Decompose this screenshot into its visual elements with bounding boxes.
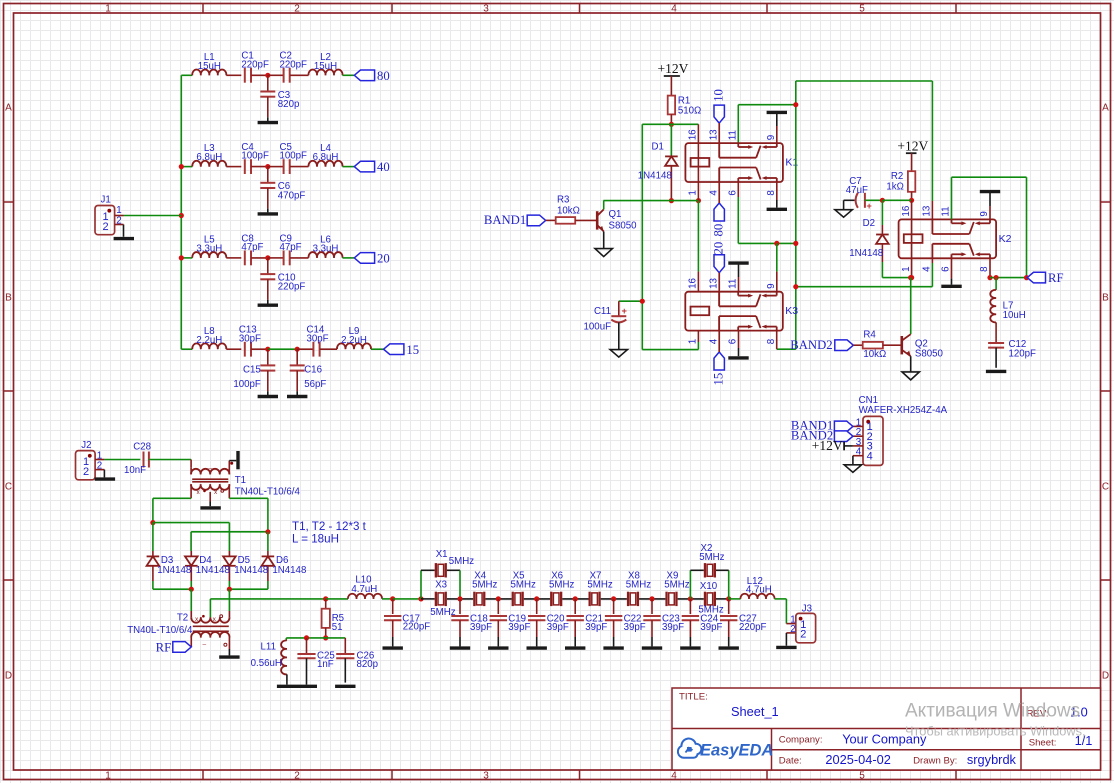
- svg-text:10kΩ: 10kΩ: [557, 205, 580, 216]
- svg-text:470pF: 470pF: [278, 190, 306, 201]
- svg-text:Company:: Company:: [779, 735, 823, 746]
- svg-text:16: 16: [901, 205, 912, 216]
- svg-text:6.8uH: 6.8uH: [313, 152, 339, 163]
- svg-text:5MHz: 5MHz: [549, 580, 574, 591]
- svg-text:11: 11: [727, 279, 738, 289]
- svg-text:T2: T2: [177, 613, 188, 624]
- svg-text:BAND1: BAND1: [484, 213, 526, 227]
- svg-text:TITLE:: TITLE:: [679, 692, 708, 703]
- svg-text:2: 2: [102, 221, 108, 233]
- svg-text:1N4148: 1N4148: [196, 565, 230, 576]
- svg-text:5MHz: 5MHz: [699, 552, 724, 563]
- svg-text:5MHz: 5MHz: [664, 580, 689, 591]
- svg-text:39pF: 39pF: [547, 622, 569, 633]
- svg-text:1: 1: [901, 266, 912, 271]
- svg-text:2.2uH: 2.2uH: [341, 335, 367, 346]
- svg-text:X1: X1: [436, 549, 448, 560]
- svg-text:2: 2: [83, 466, 89, 478]
- svg-text:510Ω: 510Ω: [678, 106, 701, 117]
- svg-text:2: 2: [790, 624, 795, 635]
- svg-text:1: 1: [688, 339, 699, 344]
- svg-text:+: +: [867, 201, 872, 211]
- svg-text:D2: D2: [863, 218, 875, 229]
- svg-text:+12V: +12V: [658, 61, 689, 76]
- svg-text:X10: X10: [700, 581, 718, 592]
- svg-text:56pF: 56pF: [304, 379, 326, 390]
- svg-text:EasyEDA: EasyEDA: [700, 742, 773, 760]
- svg-text:15uH: 15uH: [314, 61, 337, 72]
- svg-text:9: 9: [766, 283, 777, 288]
- svg-text:srgybrdk: srgybrdk: [967, 752, 1017, 767]
- svg-text:47pF: 47pF: [280, 242, 302, 253]
- svg-text:3.3uH: 3.3uH: [196, 244, 222, 255]
- svg-text:1: 1: [105, 771, 111, 782]
- svg-text:S8050: S8050: [915, 348, 944, 359]
- svg-text:100pF: 100pF: [280, 151, 308, 162]
- svg-text:2: 2: [294, 771, 300, 782]
- svg-text:R4: R4: [863, 330, 876, 341]
- svg-text:4.7uH: 4.7uH: [351, 584, 377, 595]
- svg-text:D1: D1: [652, 142, 664, 153]
- svg-text:9: 9: [979, 211, 990, 216]
- svg-text:11: 11: [941, 206, 952, 216]
- svg-text:8: 8: [766, 338, 777, 344]
- svg-text:4: 4: [708, 338, 719, 344]
- svg-text:40: 40: [377, 160, 390, 174]
- svg-text:13: 13: [708, 129, 719, 140]
- svg-text:39pF: 39pF: [585, 622, 607, 633]
- svg-text:5: 5: [859, 4, 865, 15]
- svg-text:4: 4: [867, 450, 873, 462]
- svg-text:220pF: 220pF: [241, 59, 269, 70]
- svg-text:30pF: 30pF: [307, 333, 329, 344]
- svg-text:X3: X3: [435, 580, 447, 591]
- svg-text:8: 8: [979, 266, 990, 272]
- svg-text:1N4148: 1N4148: [234, 565, 268, 576]
- svg-text:J2: J2: [81, 440, 91, 451]
- svg-text:15: 15: [712, 373, 726, 386]
- svg-text:R3: R3: [557, 194, 569, 205]
- svg-text:A: A: [1102, 103, 1109, 114]
- svg-text:39pF: 39pF: [508, 622, 530, 633]
- svg-text:11: 11: [728, 130, 739, 140]
- svg-text:1N4148: 1N4148: [638, 170, 672, 181]
- svg-text:13: 13: [922, 205, 933, 216]
- svg-text:D: D: [5, 671, 12, 682]
- svg-text:2: 2: [294, 4, 300, 15]
- svg-text:5MHz: 5MHz: [511, 580, 536, 591]
- svg-text:4: 4: [708, 190, 719, 196]
- svg-text:2.2uH: 2.2uH: [196, 335, 222, 346]
- svg-text:10nF: 10nF: [124, 465, 146, 476]
- svg-text:5: 5: [859, 771, 865, 782]
- svg-text:16: 16: [688, 129, 699, 140]
- svg-text:20: 20: [377, 252, 390, 266]
- svg-text:Активация Windows: Активация Windows: [905, 701, 1080, 722]
- svg-text:Drawn By:: Drawn By:: [913, 756, 957, 767]
- svg-text:+: +: [622, 306, 627, 316]
- svg-text:B: B: [1102, 293, 1109, 304]
- svg-text:9: 9: [766, 135, 777, 140]
- svg-text:51: 51: [332, 622, 343, 633]
- svg-text:15uH: 15uH: [198, 61, 221, 72]
- svg-text:8: 8: [766, 190, 777, 196]
- svg-text:L = 18uH: L = 18uH: [292, 533, 339, 546]
- svg-text:Sheet_1: Sheet_1: [731, 704, 779, 719]
- svg-text:C: C: [5, 482, 12, 493]
- svg-text:1: 1: [105, 4, 111, 15]
- svg-text:1N4148: 1N4148: [272, 565, 306, 576]
- svg-text:1N4148: 1N4148: [157, 565, 191, 576]
- svg-text:4: 4: [671, 771, 677, 782]
- svg-text:TN40L-T10/6/4: TN40L-T10/6/4: [235, 487, 301, 498]
- svg-text:39pF: 39pF: [700, 622, 722, 633]
- svg-text:220pF: 220pF: [403, 622, 431, 633]
- svg-text:5MHz: 5MHz: [472, 580, 497, 591]
- svg-text:10uH: 10uH: [1003, 310, 1026, 321]
- svg-text:1N4148: 1N4148: [849, 248, 883, 259]
- svg-text:B: B: [5, 293, 12, 304]
- svg-text:1kΩ: 1kΩ: [886, 182, 903, 193]
- svg-text:80: 80: [712, 224, 726, 237]
- svg-text:C28: C28: [133, 441, 151, 452]
- svg-text:1: 1: [688, 190, 699, 195]
- svg-text:Q1: Q1: [609, 209, 622, 220]
- svg-text:3.3uH: 3.3uH: [313, 244, 339, 255]
- svg-text:Sheet:: Sheet:: [1029, 738, 1057, 749]
- svg-text:120pF: 120pF: [1009, 349, 1037, 360]
- svg-text:820p: 820p: [278, 99, 300, 110]
- svg-text:220pF: 220pF: [280, 59, 308, 70]
- svg-text:6: 6: [728, 190, 739, 196]
- svg-text:10: 10: [712, 89, 726, 102]
- svg-text:820p: 820p: [357, 659, 379, 670]
- svg-text:100uF: 100uF: [584, 322, 612, 333]
- svg-text:A: A: [5, 103, 12, 114]
- svg-text:C: C: [1102, 482, 1109, 493]
- svg-text:T1, T2 - 12*3 t: T1, T2 - 12*3 t: [292, 520, 367, 533]
- svg-text:K3: K3: [785, 305, 798, 317]
- svg-text:TN40L-T10/6/4: TN40L-T10/6/4: [127, 625, 193, 636]
- svg-text:3: 3: [483, 771, 489, 782]
- svg-text:L11: L11: [261, 641, 276, 652]
- svg-text:J3: J3: [802, 603, 812, 614]
- svg-text:D: D: [1102, 671, 1109, 682]
- svg-text:6.8uH: 6.8uH: [196, 152, 222, 163]
- svg-text:5MHz: 5MHz: [626, 580, 651, 591]
- svg-text:–: –: [203, 641, 207, 648]
- svg-text:20: 20: [712, 242, 726, 255]
- svg-text:C15: C15: [243, 365, 261, 376]
- svg-text:30pF: 30pF: [239, 333, 261, 344]
- svg-text:BAND2: BAND2: [790, 338, 832, 352]
- svg-text:+12V: +12V: [812, 438, 843, 453]
- svg-text:15: 15: [406, 343, 419, 357]
- svg-text:39pF: 39pF: [470, 622, 492, 633]
- svg-text:J1: J1: [101, 195, 111, 206]
- svg-text:16: 16: [688, 277, 699, 288]
- svg-text:6: 6: [941, 266, 952, 272]
- svg-text:Date:: Date:: [779, 756, 802, 767]
- svg-text:4.7uH: 4.7uH: [746, 584, 772, 595]
- svg-text:2025-04-02: 2025-04-02: [825, 752, 890, 767]
- svg-text:220pF: 220pF: [739, 622, 767, 633]
- svg-text:80: 80: [377, 69, 390, 83]
- svg-text:39pF: 39pF: [662, 622, 684, 633]
- svg-text:5MHz: 5MHz: [587, 580, 612, 591]
- svg-text:0.56uH: 0.56uH: [251, 658, 282, 669]
- svg-text:Чтобы активировать Windows,: Чтобы активировать Windows,: [905, 724, 1086, 739]
- svg-text:C11: C11: [594, 306, 611, 317]
- svg-text:RF: RF: [1048, 271, 1064, 285]
- svg-text:RF: RF: [156, 640, 172, 654]
- svg-text:220pF: 220pF: [278, 282, 306, 293]
- svg-text:39pF: 39pF: [624, 622, 646, 633]
- svg-text:K2: K2: [999, 233, 1012, 245]
- svg-text:–: –: [209, 465, 213, 472]
- svg-text:4: 4: [671, 4, 677, 15]
- svg-text:4: 4: [856, 447, 862, 458]
- svg-text:47pF: 47pF: [241, 242, 263, 253]
- svg-text:1nF: 1nF: [317, 659, 334, 670]
- svg-text:S8050: S8050: [609, 221, 638, 232]
- svg-text:C16: C16: [304, 365, 322, 376]
- svg-text:WAFER-XH254Z-4A: WAFER-XH254Z-4A: [859, 405, 948, 416]
- svg-text:6: 6: [727, 338, 738, 344]
- svg-text:10kΩ: 10kΩ: [863, 349, 886, 360]
- svg-text:5MHz: 5MHz: [449, 556, 474, 567]
- svg-text:3: 3: [483, 4, 489, 15]
- svg-text:+12V: +12V: [897, 139, 928, 154]
- svg-text:100pF: 100pF: [241, 151, 269, 162]
- svg-text:100pF: 100pF: [233, 379, 261, 390]
- svg-text:13: 13: [708, 277, 719, 288]
- svg-text:4: 4: [922, 266, 933, 272]
- svg-text:T1: T1: [235, 475, 246, 486]
- svg-text:2: 2: [800, 628, 806, 640]
